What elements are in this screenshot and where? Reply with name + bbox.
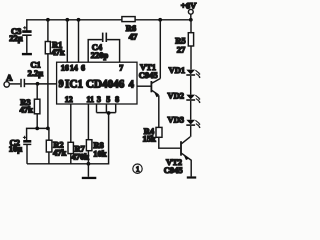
resistor R5 bbox=[188, 20, 193, 70]
svg-text:27: 27 bbox=[177, 45, 186, 55]
svg-text:47: 47 bbox=[129, 31, 138, 41]
svg-text:VD3: VD3 bbox=[168, 115, 185, 125]
node R1 top junction bbox=[46, 18, 50, 22]
resistor R8 bbox=[86, 104, 92, 164]
svg-text:+6V: +6V bbox=[181, 0, 197, 10]
node VT1 collector top junction bbox=[158, 18, 162, 22]
resistor R3 bbox=[34, 84, 40, 129]
svg-text:10k: 10k bbox=[93, 149, 107, 159]
svg-text:3: 3 bbox=[97, 95, 101, 104]
svg-text:C945: C945 bbox=[139, 70, 158, 80]
node R8 ground junction bbox=[87, 162, 91, 166]
node R3 junction bbox=[36, 82, 40, 86]
wire A to C1 bbox=[10, 83, 21, 85]
svg-text:47k: 47k bbox=[20, 105, 33, 115]
resistor R4 bbox=[156, 127, 180, 148]
transistor VT2 bbox=[181, 137, 191, 177]
svg-text:11: 11 bbox=[87, 95, 95, 104]
resistor R1 bbox=[45, 20, 50, 129]
svg-text:9: 9 bbox=[59, 79, 64, 90]
LED VD3 bbox=[186, 120, 201, 129]
capacitor C2 bbox=[23, 136, 31, 164]
svg-text:IC1 CD4046: IC1 CD4046 bbox=[65, 78, 125, 90]
svg-text:14: 14 bbox=[70, 63, 78, 72]
wire bottom ground rail bbox=[27, 113, 109, 164]
svg-text:22µ: 22µ bbox=[9, 33, 23, 43]
svg-text:2.2µ: 2.2µ bbox=[28, 68, 44, 78]
svg-text:VD1: VD1 bbox=[169, 65, 186, 75]
svg-text:47k: 47k bbox=[51, 47, 65, 57]
svg-text:8: 8 bbox=[115, 95, 119, 104]
svg-text:C945: C945 bbox=[164, 165, 183, 175]
wire VD1-VD2 bbox=[190, 76, 192, 95]
resistor R2 bbox=[46, 128, 52, 163]
LED VD1 bbox=[186, 70, 201, 79]
node pin16 top junction bbox=[65, 18, 69, 22]
wire node row to C2 bbox=[27, 128, 48, 140]
svg-text:12: 12 bbox=[65, 95, 73, 104]
svg-text:470k: 470k bbox=[72, 152, 90, 162]
svg-text:47k: 47k bbox=[53, 148, 67, 158]
node figure label 1 bbox=[133, 164, 142, 173]
capacitor C1 bbox=[21, 79, 24, 87]
capacitor C4 loop pins 6-7 bbox=[88, 33, 119, 63]
capacitor C3 bbox=[22, 26, 31, 53]
node +6V junction bbox=[189, 18, 193, 22]
wire pins 3,5,8 bus bbox=[97, 104, 116, 113]
node pin14 top junction bbox=[77, 18, 81, 22]
ground VT2 bbox=[187, 176, 196, 178]
svg-text:220p: 220p bbox=[91, 50, 109, 60]
pin 16 wire bbox=[66, 20, 68, 62]
wire top supply rail bbox=[27, 20, 191, 32]
transistor VT1 bbox=[137, 20, 160, 128]
svg-text:1: 1 bbox=[136, 165, 140, 174]
node C2/R3 junction bbox=[35, 126, 39, 130]
svg-text:15k: 15k bbox=[143, 133, 157, 143]
svg-text:VD2: VD2 bbox=[168, 90, 185, 100]
svg-text:5: 5 bbox=[106, 95, 110, 104]
svg-text:4: 4 bbox=[129, 80, 135, 91]
svg-text:10µ: 10µ bbox=[9, 143, 22, 153]
svg-text:16: 16 bbox=[61, 63, 69, 72]
node pins bus junction bbox=[107, 111, 111, 115]
svg-text:6: 6 bbox=[81, 63, 85, 72]
resistor R7 bbox=[68, 104, 73, 164]
op-amp U1 : IC1 CD4046 box bbox=[57, 62, 137, 104]
wire VD3 to VT2 collector bbox=[190, 126, 192, 137]
svg-text:7: 7 bbox=[119, 63, 123, 72]
ground C3 bbox=[22, 53, 32, 55]
wire VD2-VD3 bbox=[190, 101, 192, 120]
wire C1 to pin9 bbox=[25, 83, 57, 85]
LED VD2 bbox=[186, 95, 201, 104]
node R1/R2 junction bbox=[46, 126, 50, 130]
ground main bbox=[82, 164, 97, 179]
pin 14 wire bbox=[78, 20, 80, 62]
resistor R6 bbox=[122, 17, 135, 22]
